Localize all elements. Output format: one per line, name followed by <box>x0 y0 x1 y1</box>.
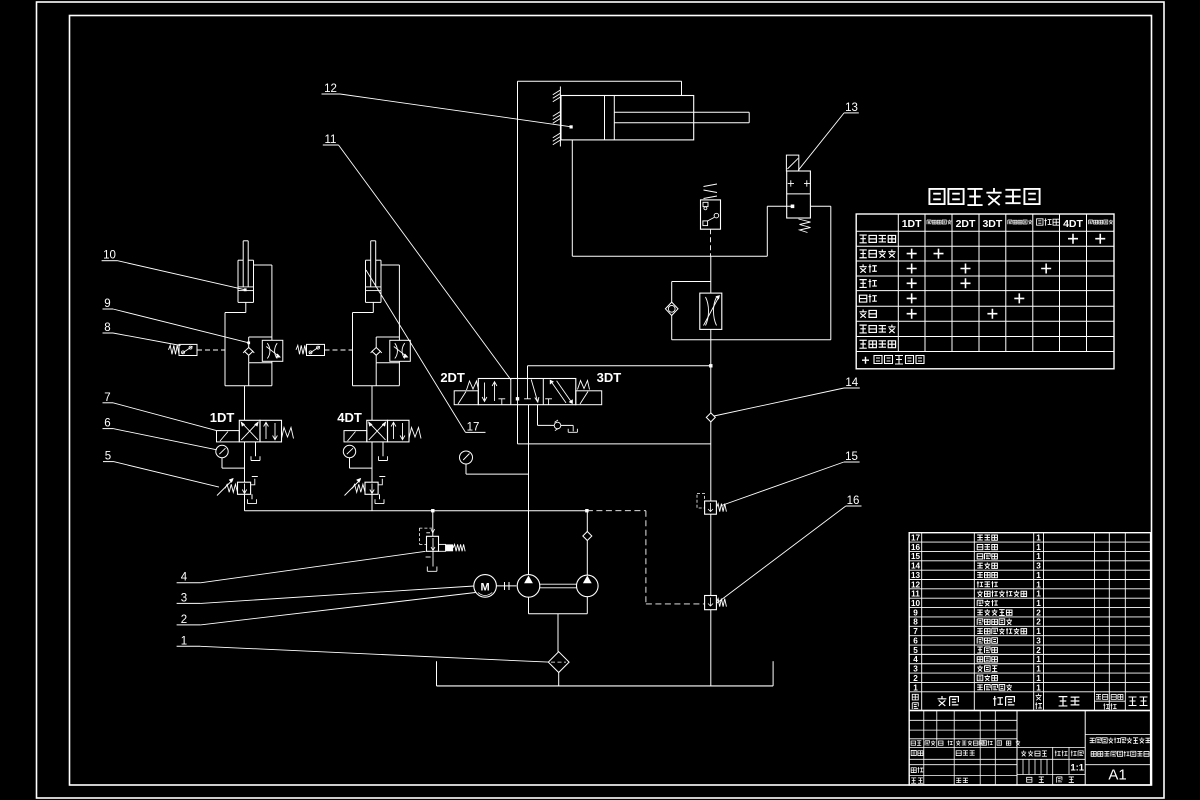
wire cylinder A-line down to valve 11 <box>517 81 519 378</box>
clamp cylinder 10 (right) <box>366 241 382 303</box>
svg-text:2: 2 <box>1036 618 1041 627</box>
wire valve feed <box>244 386 246 421</box>
wire valve feed <box>371 386 373 421</box>
svg-text:2: 2 <box>1036 646 1041 655</box>
tank <box>437 661 774 686</box>
svg-text:3DT: 3DT <box>597 370 622 385</box>
pump suction manifold <box>529 597 588 652</box>
wire up to valve 13 left port <box>767 206 791 256</box>
one-way speed control valve 9 (left) <box>243 337 283 363</box>
svg-text:4DT: 4DT <box>337 410 362 425</box>
wire valve to reducing valve <box>244 442 246 482</box>
title block left small texts <box>911 740 1020 783</box>
svg-text:6: 6 <box>104 418 110 430</box>
solenoid table plus marks <box>907 234 1106 319</box>
label 2DT <box>440 370 465 385</box>
wire cylinder cap port down <box>571 140 573 256</box>
tank drain valve 7 <box>379 442 388 461</box>
label 1 leader <box>177 635 549 662</box>
svg-text:1: 1 <box>913 683 918 692</box>
svg-text:1: 1 <box>1036 590 1041 599</box>
spring valve 7 (right) <box>409 428 421 439</box>
svg-text:7: 7 <box>913 627 918 636</box>
svg-text:11: 11 <box>911 590 920 599</box>
filter 1 <box>548 652 569 686</box>
svg-text:17: 17 <box>911 534 921 543</box>
svg-text:2DT: 2DT <box>440 370 465 385</box>
pressure relay 8 (middle) <box>701 184 721 229</box>
svg-text:1: 1 <box>1036 534 1041 543</box>
junction dot valve 13 port <box>791 205 795 209</box>
solenoid 2DT box <box>454 391 478 405</box>
wire rod port <box>381 264 399 266</box>
label 14 leader <box>714 377 860 416</box>
svg-text:1: 1 <box>1036 674 1041 683</box>
svg-text:3: 3 <box>913 665 918 674</box>
wire to supply rail <box>371 494 373 510</box>
svg-text:1DT: 1DT <box>902 218 922 230</box>
wire valve 11 A down <box>517 405 519 444</box>
svg-text:14: 14 <box>845 377 858 389</box>
title block middle grid <box>1017 747 1085 785</box>
wire valve 13 right port down <box>810 206 831 339</box>
svg-text:2: 2 <box>1036 608 1041 617</box>
svg-text:13: 13 <box>845 102 858 114</box>
title block left grid <box>909 711 1017 786</box>
wire cap port down <box>372 302 374 312</box>
label 17 leader and gauge tap <box>366 270 486 434</box>
pilot dashed line relay <box>325 349 353 351</box>
svg-text:9: 9 <box>913 608 918 617</box>
directional valve 7 4DT <box>367 420 409 442</box>
valve 13 (sequence valve) pilot box <box>786 155 798 171</box>
wire loop left vertical <box>352 313 354 386</box>
svg-text:8: 8 <box>104 322 110 334</box>
svg-text:4DT: 4DT <box>1063 218 1083 230</box>
tank drain valve 7 <box>251 442 260 461</box>
tank drain reducing valve <box>248 494 257 503</box>
svg-text:A1: A1 <box>1108 767 1126 784</box>
wire pump1 pressure line <box>528 405 530 575</box>
wire main vertical through loop <box>710 329 712 413</box>
pilot dashed line relay to rail <box>710 229 712 256</box>
one-way speed control valve 9 (right) <box>371 337 411 363</box>
clamp cylinder 10 (left) <box>238 241 254 303</box>
pressure gauge 6 (right) <box>343 445 372 468</box>
svg-text:1: 1 <box>1036 580 1041 589</box>
reducing valve 5 (right) <box>345 477 386 496</box>
svg-text:3: 3 <box>1036 636 1041 645</box>
label 4 leader <box>177 551 426 583</box>
label 12 leader to cylinder <box>322 83 573 129</box>
solenoid 3DT box <box>576 391 602 405</box>
reducing valve 5 (left) <box>217 477 258 496</box>
svg-text:17: 17 <box>467 422 480 434</box>
wire rail y444 <box>518 443 711 445</box>
wire rod port <box>254 264 272 266</box>
back-pressure valve 15 <box>697 494 726 515</box>
check valve 14 (diamond junction) <box>706 413 715 422</box>
svg-text:4: 4 <box>181 572 188 584</box>
label 4DT <box>337 410 362 425</box>
solenoid action table grid <box>856 214 1114 369</box>
junction dot rail y366 <box>709 364 712 367</box>
valve 11 drain with ball check <box>538 405 578 433</box>
solenoid 4DT box <box>344 431 367 442</box>
svg-text:1: 1 <box>1036 599 1041 608</box>
svg-text:12: 12 <box>911 580 921 589</box>
check valve (bypass, item 14) <box>665 302 678 315</box>
parts list rows text <box>911 534 1041 693</box>
label 16 leader <box>717 495 862 603</box>
wire check branch down <box>248 363 250 386</box>
relief valve 4 <box>419 511 465 572</box>
svg-text:1: 1 <box>181 635 187 647</box>
svg-text:2: 2 <box>181 614 187 626</box>
svg-text:16: 16 <box>911 543 921 552</box>
svg-text:3: 3 <box>181 592 187 604</box>
pump shaft double line <box>540 584 577 588</box>
svg-text:1: 1 <box>1036 543 1041 552</box>
title block verticals <box>1017 711 1085 786</box>
svg-text:10: 10 <box>911 599 921 608</box>
pump 3 (pump 2) <box>577 575 599 597</box>
wire valve to reducing valve <box>371 442 373 482</box>
fixed mount wall with hatching <box>553 87 561 147</box>
wire jog left <box>353 312 374 314</box>
solenoid 2DT spring <box>467 381 479 390</box>
wire main vertical to tank <box>710 610 712 686</box>
directional valve 7 1DT <box>239 420 281 442</box>
svg-text:15: 15 <box>845 451 858 463</box>
spring valve 7 (left) <box>282 428 294 439</box>
svg-text:1: 1 <box>1036 683 1041 692</box>
tank drain reducing valve <box>375 494 384 503</box>
pump 3 (pump 1) <box>517 575 540 598</box>
wire jog left <box>225 312 246 314</box>
valve 13 spring <box>799 219 811 233</box>
pilot dashed line relay <box>197 349 225 351</box>
label 9 leader <box>103 298 251 344</box>
label 3 leader <box>177 586 474 604</box>
pressure relay 8 (right) <box>296 344 325 355</box>
label 1DT <box>210 410 235 425</box>
parts list grid <box>909 533 1150 711</box>
wire check branch down <box>375 363 377 386</box>
svg-text:1:1: 1:1 <box>1070 762 1084 773</box>
wire throttle branch down <box>271 361 273 385</box>
parts list header row <box>912 694 1147 710</box>
svg-text:M: M <box>481 582 490 594</box>
wire rail y256 <box>572 255 767 257</box>
pilot dashed path to valve 16 <box>587 511 705 604</box>
wire loop bottom rail <box>225 385 272 387</box>
valve 11 (3-pos 5-way) body <box>478 379 576 405</box>
label 8 leader <box>103 322 181 346</box>
svg-text:15: 15 <box>911 552 921 561</box>
svg-text:2: 2 <box>913 674 918 683</box>
label 15 leader <box>722 451 860 505</box>
label 10 leader <box>102 250 247 292</box>
svg-text:10: 10 <box>103 250 116 262</box>
label 11 leader to valve <box>323 134 511 380</box>
title block right grid <box>1085 734 1150 764</box>
label 13 leader <box>798 102 859 170</box>
svg-text:11: 11 <box>325 134 337 146</box>
unloading valve 16 <box>705 596 727 610</box>
svg-text:12: 12 <box>324 83 337 95</box>
title block drawing title <box>1090 738 1151 757</box>
wire supply rail y511 <box>245 510 587 512</box>
junction dot pump2 tap <box>585 509 588 512</box>
solenoid 3DT spring <box>578 381 590 390</box>
svg-text:9: 9 <box>104 298 110 310</box>
wire loop left vertical <box>224 313 226 386</box>
solenoid table headers <box>902 218 1113 230</box>
svg-text:4: 4 <box>913 655 918 664</box>
wire to supply rail <box>244 494 246 510</box>
solenoid 1DT box <box>217 431 240 442</box>
svg-text:16: 16 <box>847 495 860 507</box>
svg-text:8: 8 <box>913 618 918 627</box>
svg-text:3DT: 3DT <box>982 218 1002 230</box>
svg-text:7: 7 <box>104 392 110 404</box>
svg-text:5: 5 <box>105 451 111 463</box>
svg-text:1: 1 <box>1036 627 1041 636</box>
svg-text:1: 1 <box>1036 552 1041 561</box>
throttle valve (feed, item 9 style) <box>700 293 722 329</box>
junction dot relief tap <box>431 509 434 512</box>
wire cap port down <box>245 302 247 312</box>
bypass loop rails <box>672 282 831 340</box>
wire rail y366 valve-B to main line <box>528 365 711 367</box>
check valve 14 (pump2) <box>583 511 592 575</box>
electric motor 2 <box>474 575 497 598</box>
svg-text:1: 1 <box>1036 571 1041 580</box>
title block sheet size A1 <box>1108 767 1126 784</box>
svg-text:5: 5 <box>913 646 918 655</box>
svg-text:1: 1 <box>1036 655 1041 664</box>
cylinder 12 (feed cylinder) <box>561 96 749 140</box>
solenoid table row labels <box>859 235 895 348</box>
solenoid action table title 电磁铁动作表 <box>929 188 1039 205</box>
svg-text:1DT: 1DT <box>210 410 235 425</box>
wire loop bottom rail <box>353 385 400 387</box>
wire throttle branch down <box>398 361 400 385</box>
label 7 leader <box>103 392 217 431</box>
svg-text:6: 6 <box>913 636 918 645</box>
label 3DT <box>597 370 622 385</box>
wire loop right vertical upper <box>271 265 273 340</box>
svg-text:1: 1 <box>1036 665 1041 674</box>
label 6 leader <box>103 418 217 450</box>
wire valve 11 B-stub <box>527 366 529 379</box>
label 5 leader <box>103 451 219 487</box>
wire main vertical to valve 15 <box>710 422 712 501</box>
svg-text:3: 3 <box>1036 562 1041 571</box>
valve 13 (sequence valve) body <box>787 171 811 218</box>
coupling motor-pump <box>496 582 516 590</box>
svg-text:13: 13 <box>911 571 921 580</box>
pressure gauge 17 <box>460 451 529 474</box>
pressure gauge 6 (left) <box>216 445 245 468</box>
wire main vertical upper <box>710 256 712 293</box>
svg-text:2DT: 2DT <box>956 218 976 230</box>
label 2 leader <box>177 593 476 626</box>
pressure relay 8 (left) <box>169 344 198 355</box>
title block middle texts <box>1021 751 1085 783</box>
wire top rail to cylinder rod-side port <box>518 81 682 95</box>
wire main vertical to valve 16 <box>710 514 712 595</box>
svg-text:14: 14 <box>911 562 921 571</box>
title block outer <box>909 711 1150 786</box>
solenoid table footer 电磁铁得电 <box>862 356 924 365</box>
wire loop right vertical upper <box>398 265 400 340</box>
